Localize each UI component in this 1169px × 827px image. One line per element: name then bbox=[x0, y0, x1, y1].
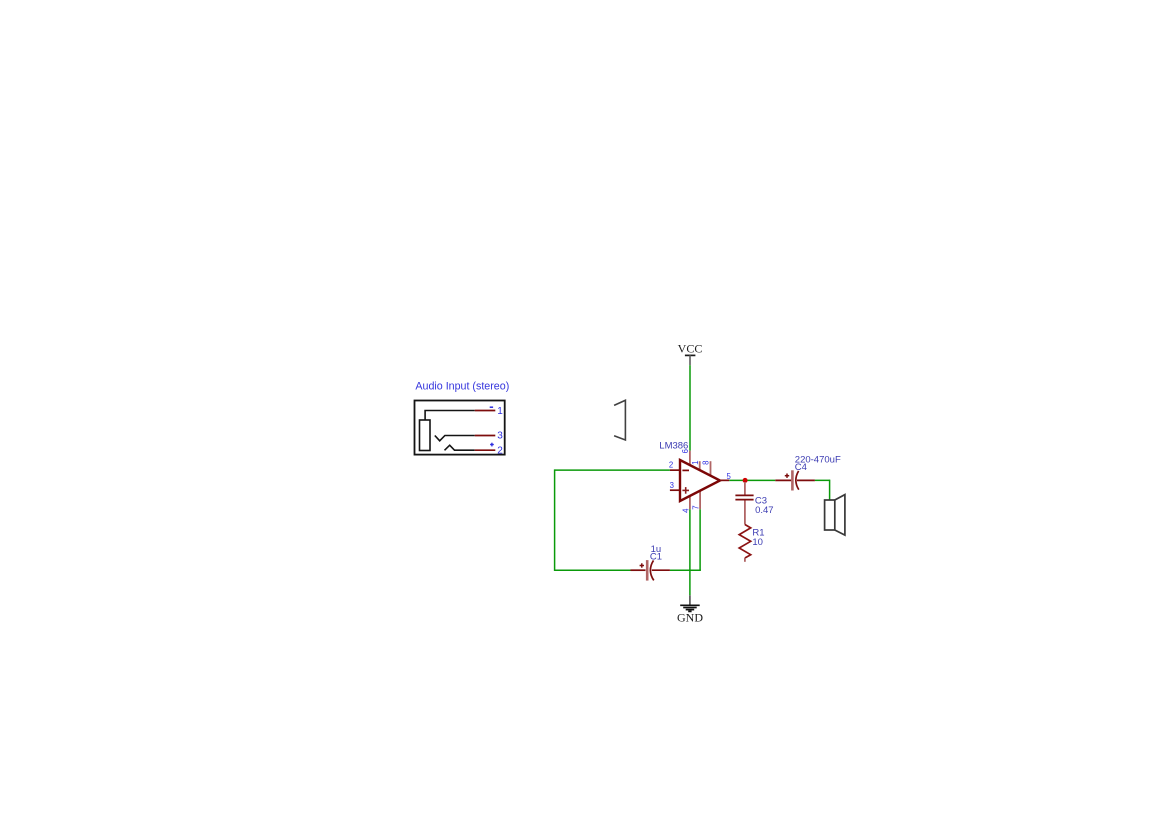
svg-text:0.47: 0.47 bbox=[755, 505, 774, 516]
svg-text:8: 8 bbox=[702, 461, 711, 465]
svg-text:3: 3 bbox=[670, 481, 674, 490]
svg-text:1: 1 bbox=[691, 461, 700, 465]
svg-text:4: 4 bbox=[682, 508, 691, 513]
svg-text:C4: C4 bbox=[795, 462, 807, 473]
svg-text:6: 6 bbox=[681, 449, 690, 453]
svg-text:7: 7 bbox=[692, 505, 701, 509]
svg-text:GND: GND bbox=[677, 611, 703, 625]
svg-text:1: 1 bbox=[497, 406, 503, 417]
svg-text:Audio Input (stereo): Audio Input (stereo) bbox=[415, 381, 509, 393]
svg-text:2: 2 bbox=[497, 446, 503, 457]
svg-text:10: 10 bbox=[752, 537, 763, 548]
svg-text:VCC: VCC bbox=[678, 341, 703, 355]
svg-text:C1: C1 bbox=[650, 552, 662, 563]
svg-text:2: 2 bbox=[669, 460, 673, 469]
svg-text:3: 3 bbox=[497, 431, 503, 442]
